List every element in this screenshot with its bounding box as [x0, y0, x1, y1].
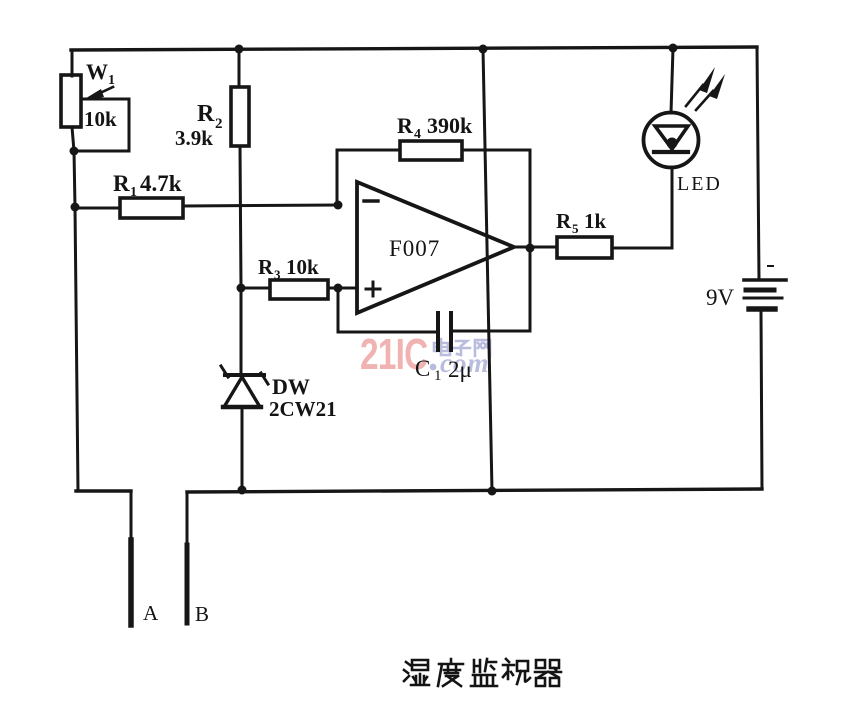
junction node inverting input [334, 201, 343, 210]
junction node top crossing [479, 45, 488, 54]
svg-text:R: R [258, 255, 274, 279]
svg-text:1k: 1k [584, 209, 607, 233]
watermark .com [430, 348, 490, 378]
capacitor C1 plates [438, 313, 451, 350]
probe B [186, 492, 189, 623]
junction node top R2 [235, 45, 244, 54]
LED emission arrows [686, 67, 725, 110]
svg-text:R: R [556, 209, 572, 233]
svg-text:3.9k: 3.9k [175, 126, 213, 150]
label 9V [706, 285, 735, 310]
wire vertical crossing line [483, 49, 492, 491]
label R3 10k [258, 255, 319, 282]
svg-text:10k: 10k [84, 107, 117, 131]
label W1 [86, 59, 115, 88]
svg-text:LED: LED [677, 173, 722, 195]
svg-text:R: R [197, 101, 215, 127]
svg-text:2μ: 2μ [448, 357, 472, 382]
resistor R3 [241, 280, 357, 299]
label C1 2u [415, 356, 472, 384]
label DW [272, 374, 310, 399]
label 3.9k [175, 126, 213, 150]
svg-text:R: R [113, 171, 130, 196]
label F007 [389, 236, 440, 261]
resistor R4 (feedback) [337, 141, 530, 248]
svg-text:1: 1 [130, 185, 137, 200]
label R1 4.7k [113, 171, 182, 200]
svg-text:3: 3 [274, 267, 281, 282]
wire right rail upper [757, 47, 759, 280]
zener diode DW 2CW21 [221, 288, 268, 490]
caption 湿度监视器 (drawn strokes) [404, 659, 561, 686]
junction node crossing bottom [488, 487, 497, 496]
svg-text:1: 1 [434, 368, 442, 384]
watermark 21IC [360, 331, 428, 379]
battery 9V [744, 266, 786, 309]
potentiometer W1 [61, 75, 129, 151]
wire left rail [71, 50, 74, 76]
wire top rail [71, 47, 757, 50]
label R2 [197, 101, 223, 132]
junction node R3 branch [237, 284, 246, 293]
svg-text:1: 1 [108, 73, 115, 88]
wire right rail lower [761, 311, 762, 489]
svg-text:W: W [86, 59, 108, 84]
svg-text:DW: DW [272, 374, 310, 399]
op-amp U1 F007 [357, 182, 514, 313]
resistor R1 [75, 198, 339, 218]
svg-text:4: 4 [414, 127, 421, 142]
svg-text:390k: 390k [427, 113, 473, 138]
probe A [130, 491, 133, 625]
svg-text:A: A [143, 601, 159, 625]
svg-text:C: C [415, 356, 430, 381]
svg-text:F007: F007 [389, 236, 440, 261]
label 10k [84, 107, 117, 131]
svg-text:10k: 10k [286, 255, 319, 279]
label A [143, 601, 159, 625]
wire bottom rail left [76, 489, 131, 492]
capacitor C1 loop [338, 248, 530, 332]
resistor R5 [514, 237, 672, 258]
label LED [677, 173, 722, 195]
label 2CW21 [269, 397, 337, 421]
label R4 390k [397, 113, 473, 142]
junction node zener bottom [238, 486, 247, 495]
watermark dianziwang (CJK) [434, 339, 490, 356]
wire bottom rail right [187, 489, 762, 492]
resistor R2 [231, 49, 249, 288]
label R5 1k [556, 209, 607, 236]
svg-text:9V: 9V [706, 285, 735, 310]
junction node R1 left [71, 203, 80, 212]
svg-text:R: R [397, 113, 414, 138]
svg-text:4.7k: 4.7k [140, 171, 182, 196]
junction node top LED [669, 44, 678, 53]
svg-text:B: B [195, 602, 209, 626]
junction node output [526, 244, 535, 253]
svg-text:2CW21: 2CW21 [269, 397, 337, 421]
label B [195, 602, 209, 626]
junction node wiper [70, 147, 79, 156]
svg-text:5: 5 [572, 221, 579, 236]
svg-text:2: 2 [215, 116, 223, 132]
junction node non-inverting input [334, 284, 343, 293]
LED D1 [644, 48, 699, 248]
